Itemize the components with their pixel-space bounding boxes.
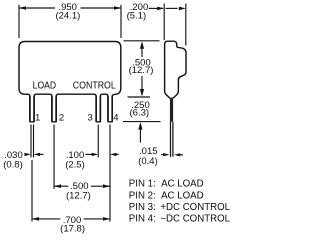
dim .500 stem upper (141, 47, 143, 57)
svg-text:1: 1 (35, 113, 40, 124)
dim .030 tail (40, 153, 44, 155)
dim .250 arrow up (138, 122, 142, 130)
svg-text:LOAD: LOAD (33, 81, 57, 92)
svg-text:(12.7): (12.7) (66, 191, 91, 202)
pin 1 heavy sides (29, 96, 31, 121)
svg-text:(0.8): (0.8) (3, 159, 23, 170)
dim .015 leader left (161, 154, 166, 156)
side profile pin lower outline left (170, 122, 172, 157)
dim .950 line right part (81, 7, 122, 9)
dim .500 bottom line left part (54, 185, 68, 187)
dim .200 arrow 2 (179, 7, 186, 11)
dim .500 bottom arrow right (103, 184, 110, 188)
dim .250 bottom line (123, 121, 161, 123)
dim .100 arrow left-pointing (110, 153, 117, 156)
dim .700 arrow right (103, 217, 110, 221)
svg-text:(2.5): (2.5) (65, 159, 85, 170)
svg-text:(5.1): (5.1) (127, 10, 147, 21)
side profile pin solid part (170, 98, 173, 122)
dim .015 tail right (179, 154, 183, 156)
svg-text:PIN 1: AC LOAD: PIN 1: AC LOAD (129, 179, 204, 190)
svg-text:PIN 2: AC LOAD: PIN 2: AC LOAD (129, 190, 204, 201)
dim .250 arrow stem (139, 128, 141, 143)
svg-text:3: 3 (88, 113, 93, 124)
svg-text:PIN 4: −DC CONTROL: PIN 4: −DC CONTROL (129, 214, 231, 225)
pin1 centerline extension (31, 160, 33, 222)
pin 3 heavy sides (95, 96, 97, 121)
dim .030 arrow right-pointing (24, 153, 31, 156)
dim .950 extension line right (120, 5, 122, 38)
svg-text:(12.7): (12.7) (129, 65, 154, 76)
side profile view (165, 41, 186, 98)
dim .200 extension line right (185, 4, 187, 46)
body outline front view with pins 1-4 (19, 42, 121, 122)
svg-text:2: 2 (59, 113, 64, 124)
dim .700 arrow left (32, 217, 39, 221)
svg-text:PIN 3: +DC CONTROL: PIN 3: +DC CONTROL (129, 202, 231, 213)
dim .950 extension line left (18, 5, 20, 38)
dim .500 top extension line (124, 40, 160, 42)
svg-text:(6.3): (6.3) (130, 108, 150, 119)
dim .950 arrow left (19, 6, 26, 10)
dim .500 stem lower (141, 76, 143, 90)
pin1 edge extension line right (33, 125, 35, 158)
dim .700 line left part (32, 218, 60, 220)
dim .700 line right part (84, 218, 111, 220)
dim .100 arrow right-pointing (92, 153, 99, 156)
svg-text:CONTROL: CONTROL (73, 81, 116, 92)
pin3 centerline extension (97, 125, 99, 158)
dim .500 arrow up (140, 41, 144, 49)
pin2 centerline extension (53, 125, 55, 189)
dim .030 arrow left-pointing (34, 153, 41, 156)
dim .500/.250 shared line (128, 96, 151, 98)
dim .200 mid line (166, 7, 178, 9)
side profile pin lower outline right (172, 122, 174, 157)
dim .015 arrow left (163, 153, 170, 156)
svg-text:(17.8): (17.8) (60, 223, 85, 234)
dim .200 extension line left (163, 4, 165, 41)
dim .500 bottom line right part (91, 185, 110, 187)
svg-text:4: 4 (113, 112, 118, 123)
dim .950 arrow right (114, 6, 121, 10)
dim .200 arrow 1 (157, 7, 164, 11)
pin 2 heavy sides (51, 96, 53, 121)
dim .500 bottom arrow left (54, 184, 61, 188)
dim .015 arrow right (174, 153, 181, 156)
dim .500 arrow down (140, 89, 144, 97)
dim .950 line left part (19, 7, 55, 9)
svg-text:(0.4): (0.4) (138, 156, 158, 167)
dim .100 leader (86, 153, 93, 155)
dim .200 leader (149, 7, 163, 9)
dim .100 tail (116, 153, 119, 155)
pin1 edge extension line left (30, 125, 32, 158)
pin 4 heavy sides (107, 96, 109, 121)
pin4 centerline extension (109, 125, 111, 222)
svg-text:(24.1): (24.1) (55, 10, 80, 21)
